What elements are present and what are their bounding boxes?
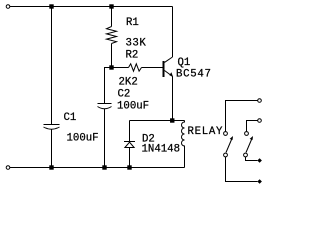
wire R1 branch top: [111, 7, 113, 27]
wire emitter drop: [172, 76, 174, 120]
contact2 pivot circle: [244, 153, 248, 157]
terminal bottom-left: [6, 166, 10, 170]
wire contact2 common: [246, 157, 258, 161]
wire R1 bottom: [111, 44, 113, 68]
wire C2 bottom: [104, 109, 106, 168]
diode D2: [124, 141, 135, 143]
contact2 fixed circle: [245, 132, 249, 136]
svg-text:C1: C1: [64, 112, 77, 124]
contact1 pivot circle: [224, 153, 228, 157]
capacitor C2: [98, 103, 112, 105]
node junction C2 bottom: [102, 165, 106, 169]
wire D2 bottom: [129, 148, 131, 168]
resistor R1: [107, 27, 117, 44]
node junction emitter/relay/diode: [170, 118, 174, 122]
wire to C2: [105, 68, 112, 104]
wire base row: [112, 67, 129, 69]
svg-text:R1: R1: [126, 17, 139, 29]
svg-text:BC547: BC547: [176, 69, 212, 81]
node junction R1/R2/C2: [109, 65, 113, 69]
resistor R2: [129, 64, 142, 71]
svg-text:2K2: 2K2: [119, 76, 138, 88]
svg-text:C2: C2: [118, 89, 131, 101]
svg-text:RELAY: RELAY: [188, 126, 224, 138]
terminal top-left: [6, 5, 10, 9]
wire top rail: [10, 6, 173, 8]
terminal diamond contact2: [257, 158, 262, 163]
svg-text:33K: 33K: [126, 38, 147, 50]
wire contact1 common: [226, 157, 258, 182]
relay coil: [182, 121, 185, 168]
contact1 fixed circle: [224, 132, 228, 136]
wire bottom rail: [10, 167, 185, 169]
wire node row: [130, 120, 185, 122]
terminal diamond contact1: [257, 179, 262, 184]
svg-text:100uF: 100uF: [67, 133, 99, 145]
transistor Q1: [163, 61, 165, 77]
capacitor C1: [44, 124, 60, 126]
node junction C1 bottom: [49, 165, 53, 169]
wire C1 branch bottom: [51, 129, 53, 168]
terminal contact1 feed: [258, 99, 262, 103]
wire C1 branch top: [51, 7, 53, 125]
contact2 arm: [246, 138, 252, 153]
wire contact1 feed: [226, 101, 258, 132]
svg-text:100uF: 100uF: [117, 101, 149, 113]
wire R2 to base: [142, 67, 163, 69]
node junction C1 top: [49, 4, 53, 8]
wire D2 top: [129, 121, 131, 142]
svg-text:1N4148: 1N4148: [142, 144, 180, 156]
node junction D2 bottom: [127, 165, 131, 169]
wire contact2 feed: [247, 121, 258, 132]
wire collector drop: [172, 7, 174, 58]
svg-text:Q1: Q1: [178, 57, 191, 69]
svg-text:R2: R2: [126, 50, 139, 62]
contact1 arm: [226, 138, 232, 153]
terminal contact2 feed: [258, 119, 262, 123]
node junction R1 top: [109, 4, 113, 8]
